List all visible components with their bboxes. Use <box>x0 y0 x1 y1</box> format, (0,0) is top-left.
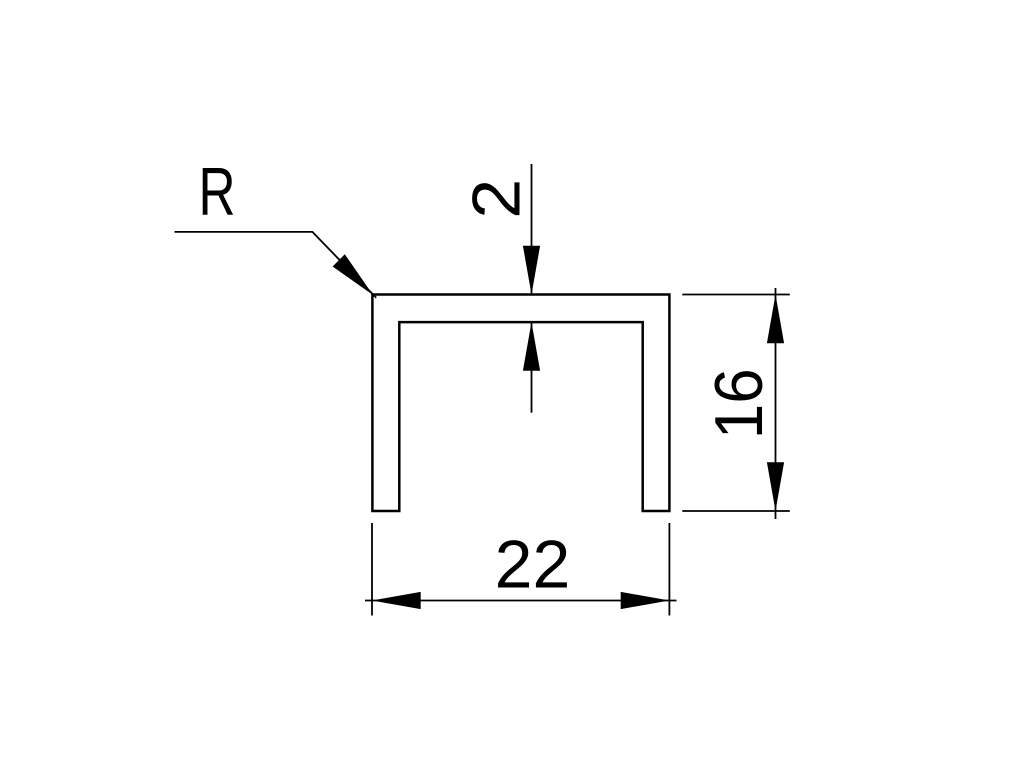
svg-text:R: R <box>199 154 236 230</box>
dimension 22 left arrowhead <box>372 592 421 609</box>
svg-text:22: 22 <box>495 527 571 603</box>
dimension 22 line <box>365 600 677 602</box>
dimension 16 extension line bottom <box>682 510 790 512</box>
U-channel profile outline <box>372 295 669 512</box>
dimension 16 lower arrowhead <box>767 462 784 511</box>
dimension 16 extension line top <box>682 294 790 296</box>
dimension 16 line <box>775 288 777 519</box>
dimension 22 right arrowhead <box>621 592 670 609</box>
svg-text:16: 16 <box>701 368 777 439</box>
dimension 2 upper arrowhead <box>523 246 540 295</box>
leader line for R <box>175 232 377 298</box>
dimension 22 extension line left <box>371 523 373 616</box>
dimension 2 lower arrowhead <box>523 322 540 371</box>
leader arrowhead <box>333 254 373 295</box>
dimension 2 line lower tail <box>531 322 533 413</box>
dimension 2 line upper <box>531 164 533 295</box>
dimension 22 extension line right <box>668 523 670 616</box>
svg-text:2: 2 <box>459 179 535 219</box>
dimension 16 upper arrowhead <box>767 295 784 344</box>
